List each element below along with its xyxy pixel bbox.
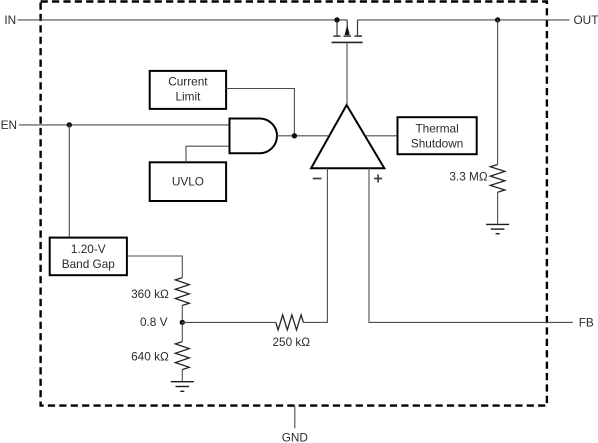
wire: node down to 640k <box>181 322 183 341</box>
resistor 640 kohm <box>175 342 189 370</box>
wire: 640k to ground <box>181 370 183 381</box>
svg-text:IN: IN <box>4 13 16 27</box>
wire: band gap to divider <box>128 256 183 278</box>
node: IN-to-FET junction <box>334 17 339 22</box>
svg-text:Band Gap: Band Gap <box>62 257 116 271</box>
node: AND output junction <box>292 133 297 138</box>
svg-text:640 kΩ: 640 kΩ <box>131 349 169 363</box>
svg-text:FB: FB <box>579 316 594 330</box>
wire: GND stub <box>294 406 296 429</box>
Thermal Shutdown block <box>398 117 477 154</box>
wire: UVLO to AND gate <box>186 146 230 162</box>
pass transistor (PMOS) <box>332 20 363 43</box>
1.20-V Band Gap block <box>50 238 127 276</box>
svg-text:Current: Current <box>168 75 208 89</box>
node: OUT junction <box>495 17 500 22</box>
svg-text:Thermal: Thermal <box>415 121 458 135</box>
svg-text:GND: GND <box>282 430 308 443</box>
svg-text:EN: EN <box>1 118 17 132</box>
wire: gate of PMOS to amplifier output <box>346 43 348 104</box>
wire: amplifier to thermal shutdown <box>365 135 398 137</box>
wire: OUT line <box>358 19 570 21</box>
resistor 250 kohm <box>276 315 304 330</box>
wire: 250k to inverting input <box>303 168 327 322</box>
wire: EN line <box>19 124 230 126</box>
svg-text:OUT: OUT <box>574 13 598 27</box>
svg-text:360 kΩ: 360 kΩ <box>131 287 169 301</box>
AND gate U1 <box>230 119 278 154</box>
node: 0.8 V <box>180 320 185 325</box>
Current Limit block <box>150 71 226 109</box>
label: minus input <box>313 178 322 180</box>
svg-text:0.8 V: 0.8 V <box>140 315 168 329</box>
svg-text:Shutdown: Shutdown <box>411 136 463 150</box>
wire: 360k to node <box>181 306 183 323</box>
ground (under 640 k resistor) <box>171 382 194 392</box>
error amplifier (triangle) <box>311 105 384 168</box>
node: EN junction <box>67 122 72 127</box>
wire: AND output to amplifier <box>277 135 328 137</box>
svg-text:1.20-V: 1.20-V <box>71 242 106 256</box>
ground (under 3.3 M resistor) <box>486 224 509 233</box>
wire: 0.8 V node to 250k <box>182 321 275 323</box>
resistor 3.3 Mohm <box>490 165 505 193</box>
wire: EN to band gap <box>68 125 70 238</box>
IC boundary (dashed) <box>41 2 547 406</box>
svg-text:250 kΩ: 250 kΩ <box>272 335 310 349</box>
wire: resistor to ground <box>497 192 499 223</box>
UVLO block <box>150 162 226 201</box>
wire: FB line to non-inverting input <box>369 168 573 322</box>
wire: OUT node down to 3.3 M resistor <box>497 20 499 165</box>
wire: current limit output <box>226 89 294 136</box>
svg-text:UVLO: UVLO <box>172 175 204 189</box>
wire: IN line <box>18 19 338 21</box>
resistor 360 kohm <box>175 278 189 306</box>
svg-text:Limit: Limit <box>175 90 201 104</box>
svg-text:3.3 MΩ: 3.3 MΩ <box>449 170 488 184</box>
label: plus input <box>374 175 382 183</box>
